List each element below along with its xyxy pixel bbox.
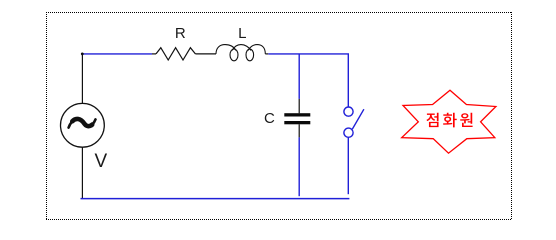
wire between R and L (black) xyxy=(195,53,216,55)
capacitor C xyxy=(284,113,310,124)
wire switch to bottom (blue) xyxy=(347,137,349,194)
wire top-left (blue) xyxy=(82,53,152,55)
svg-text:L: L xyxy=(238,25,246,42)
wire inductor lead-out (black) xyxy=(265,53,268,55)
ignition source starburst xyxy=(402,90,496,153)
wire resistor lead-in (black) xyxy=(152,53,156,55)
svg-text:C: C xyxy=(264,110,275,127)
wire capacitor top lead (black) xyxy=(298,99,300,113)
resistor R xyxy=(156,48,195,60)
svg-text:R: R xyxy=(175,25,186,42)
junction top-left corner xyxy=(81,53,84,56)
ac source V xyxy=(61,103,105,147)
wire bottom (blue) xyxy=(81,198,350,200)
wire top-right and down to switch (blue) xyxy=(268,54,348,107)
wire left vertical lower (black) xyxy=(81,147,83,198)
wire left vertical upper (black) xyxy=(81,53,83,103)
wire capacitor branch lower (blue) xyxy=(298,137,300,196)
inductor L xyxy=(216,45,265,61)
switch S xyxy=(344,107,364,137)
wire capacitor bottom lead (black) xyxy=(298,124,300,137)
wire capacitor branch upper (blue) xyxy=(298,54,300,99)
label 점화원 (ignition source) xyxy=(426,113,472,128)
svg-text:V: V xyxy=(95,151,108,172)
